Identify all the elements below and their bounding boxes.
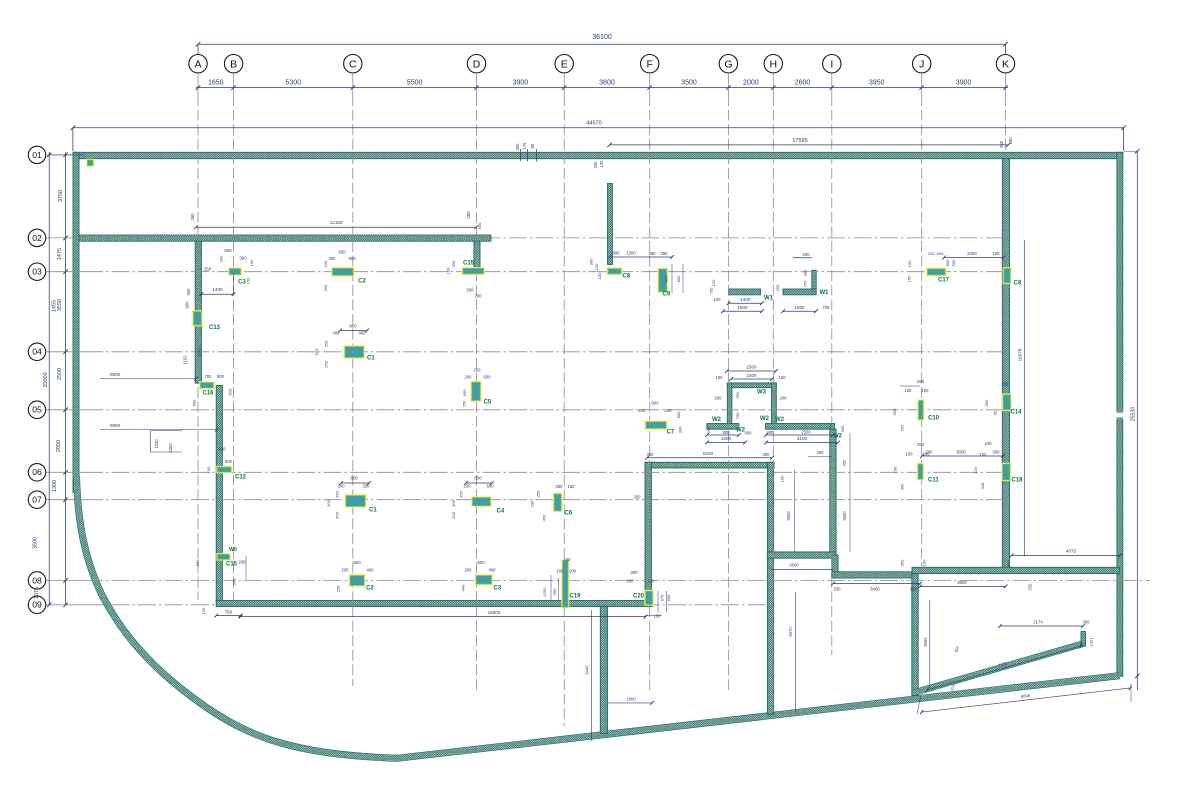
svg-text:2300: 2300 (746, 365, 757, 370)
grid line F (vertical) (649, 95, 651, 690)
svg-text:380: 380 (649, 251, 657, 256)
svg-text:250: 250 (593, 161, 598, 169)
svg-text:250: 250 (462, 400, 467, 407)
dims chain at C8 F (610, 256, 672, 258)
grid bubble 09 (28, 596, 45, 613)
svg-text:750: 750 (803, 280, 808, 287)
svg-text:E: E (561, 59, 568, 71)
column C19 (561, 559, 569, 608)
svg-text:400: 400 (359, 331, 367, 336)
grid bubble 08 (28, 572, 45, 589)
svg-text:1021: 1021 (1089, 637, 1094, 647)
svg-text:130: 130 (648, 579, 656, 584)
svg-text:250: 250 (1002, 382, 1010, 387)
svg-text:240: 240 (564, 557, 572, 562)
svg-text:250: 250 (323, 284, 328, 291)
grid line 06 (horizontal) (85, 471, 1012, 473)
svg-text:A: A (194, 59, 201, 71)
svg-text:44570: 44570 (586, 121, 601, 127)
svg-text:1650: 1650 (208, 79, 224, 86)
svg-text:W2: W2 (760, 416, 770, 422)
svg-text:575: 575 (660, 594, 665, 601)
svg-text:400: 400 (745, 431, 753, 436)
svg-text:1300: 1300 (52, 480, 58, 492)
dims at W1 right (783, 310, 816, 312)
svg-text:200: 200 (239, 560, 247, 565)
wall: W1 right vertical leg (812, 270, 816, 289)
svg-text:500: 500 (224, 248, 232, 253)
svg-text:800: 800 (676, 275, 681, 282)
svg-text:350: 350 (910, 587, 918, 592)
svg-text:350: 350 (900, 483, 905, 490)
grid line K (vertical) (1005, 95, 1007, 568)
svg-text:08: 08 (32, 575, 42, 585)
grid bubble G (719, 55, 737, 73)
svg-text:250: 250 (661, 251, 669, 256)
svg-text:W2: W2 (775, 417, 785, 423)
expansion joint marks on top wall x520 (520, 149, 522, 161)
svg-text:03: 03 (32, 267, 42, 277)
svg-text:300: 300 (1083, 619, 1091, 624)
svg-text:150: 150 (905, 388, 913, 393)
svg-text:600: 600 (937, 251, 944, 256)
svg-text:3550: 3550 (57, 299, 63, 311)
grid line 09 (horizontal) (85, 604, 772, 606)
svg-text:W1: W1 (764, 296, 774, 302)
svg-text:120: 120 (599, 160, 604, 168)
column C5 (471, 381, 482, 402)
column C2 (349, 574, 365, 586)
grid bubble H (764, 55, 782, 73)
wall: curved + slanted bottom exterior wall (77, 476, 1120, 758)
svg-text:250: 250 (917, 379, 925, 384)
svg-text:200: 200 (464, 484, 472, 489)
svg-text:600: 600 (477, 560, 485, 565)
svg-text:25530: 25530 (1131, 407, 1137, 422)
dimension 750 row09 left (216, 615, 240, 617)
svg-text:I: I (830, 59, 833, 71)
svg-text:100: 100 (557, 569, 565, 574)
column C17 (926, 268, 946, 277)
svg-text:C3: C3 (494, 586, 502, 592)
column C12 (216, 466, 232, 474)
svg-text:3650: 3650 (842, 511, 847, 521)
svg-text:200: 200 (817, 450, 825, 455)
svg-text:200: 200 (834, 587, 842, 592)
dims at W1 left (729, 302, 763, 304)
svg-text:600: 600 (225, 459, 233, 464)
svg-text:800: 800 (945, 259, 950, 266)
svg-text:02: 02 (32, 233, 42, 243)
grid bubble D (467, 55, 485, 73)
column C20 (644, 590, 653, 606)
svg-text:C15: C15 (226, 562, 238, 568)
wall: jog wall at x835 (832, 555, 838, 577)
svg-text:1250: 1250 (542, 587, 547, 597)
svg-text:16500: 16500 (488, 610, 501, 615)
svg-text:900: 900 (892, 408, 897, 415)
svg-text:3850: 3850 (786, 511, 791, 521)
svg-text:340: 340 (980, 482, 985, 489)
svg-text:300: 300 (239, 256, 247, 261)
wall: right exterior wall (1117, 152, 1123, 676)
svg-text:150: 150 (323, 260, 328, 267)
wall: interior wall on grid A upper segment (195, 241, 201, 383)
svg-text:850: 850 (1006, 560, 1011, 567)
svg-text:150: 150 (654, 614, 662, 619)
svg-text:C11: C11 (928, 478, 939, 484)
svg-text:3100: 3100 (797, 436, 808, 441)
svg-text:400: 400 (767, 430, 775, 435)
svg-text:C8: C8 (1014, 281, 1022, 287)
wall: interior wall along row 02 (79, 235, 491, 241)
column C13 (192, 310, 202, 326)
svg-text:800: 800 (474, 476, 482, 481)
svg-text:250: 250 (190, 213, 195, 221)
wall: vertical wall below shaft (x833) (830, 429, 836, 555)
svg-text:6670: 6670 (788, 627, 793, 637)
svg-text:200: 200 (530, 500, 535, 507)
svg-text:175: 175 (522, 142, 527, 150)
dimension 36100 overall top (198, 43, 1006, 45)
svg-text:500: 500 (477, 222, 482, 229)
column small wall column (86, 159, 94, 167)
svg-text:700: 700 (893, 466, 898, 473)
svg-text:100: 100 (780, 475, 785, 482)
dimension 17595 (610, 144, 1009, 146)
svg-text:250: 250 (459, 490, 464, 497)
dims around room: 5200 etc (647, 457, 772, 459)
wall: interior wall on grid K (1002, 159, 1009, 570)
wall: W1 wall bar right (row 03) (783, 289, 816, 295)
dimension 44570 (73, 127, 1124, 129)
svg-text:250: 250 (917, 442, 925, 447)
grid bubble 07 (28, 491, 45, 508)
svg-text:200: 200 (627, 579, 635, 584)
svg-text:120: 120 (973, 466, 978, 473)
column C15 (462, 267, 485, 275)
svg-text:220: 220 (928, 251, 935, 256)
svg-text:D: D (473, 59, 481, 71)
svg-text:3500: 3500 (33, 537, 39, 549)
wall: top exterior wall along row 01 (73, 152, 1123, 158)
svg-text:600: 600 (192, 399, 197, 406)
svg-text:400: 400 (489, 568, 497, 573)
svg-text:900: 900 (349, 256, 357, 261)
svg-text:900: 900 (651, 401, 659, 406)
opening in right exterior wall at row 05 (1116, 412, 1124, 419)
right overall dimension 25530 (1136, 151, 1138, 690)
grid bubble 05 (28, 401, 45, 418)
svg-text:B: B (230, 59, 237, 71)
grid line G (vertical) (727, 95, 729, 690)
svg-text:1600: 1600 (794, 305, 805, 310)
grid line 08 (horizontal) (85, 579, 1150, 581)
column C15 (216, 553, 230, 561)
svg-text:2600: 2600 (789, 563, 799, 568)
dimension 16500 row09 (241, 616, 646, 618)
svg-text:05: 05 (32, 405, 42, 415)
svg-text:750: 750 (709, 287, 714, 294)
svg-text:200: 200 (219, 255, 224, 262)
column C18 (1001, 463, 1011, 481)
svg-text:3500: 3500 (681, 79, 697, 86)
dimension 1400 (A wall to B) (201, 293, 233, 295)
svg-text:9850: 9850 (110, 423, 121, 428)
svg-text:300: 300 (763, 452, 771, 457)
svg-text:850: 850 (664, 275, 669, 282)
column C6 (553, 493, 563, 512)
svg-text:04: 04 (32, 347, 42, 357)
svg-text:250: 250 (1028, 583, 1033, 591)
svg-text:300: 300 (840, 425, 845, 432)
svg-text:200: 200 (638, 408, 646, 413)
column C14 (1002, 394, 1012, 411)
grid bubble 04 (28, 343, 45, 360)
svg-text:1475: 1475 (57, 248, 63, 260)
svg-text:1500: 1500 (737, 305, 748, 310)
grid bubble J (913, 55, 931, 73)
svg-text:150: 150 (922, 559, 927, 566)
svg-text:5200: 5200 (703, 451, 714, 456)
svg-text:250: 250 (335, 511, 340, 518)
svg-text:250: 250 (803, 252, 811, 257)
column C11 (917, 463, 924, 481)
dims bottom right: 5065/5445/6670/1800 (929, 600, 931, 688)
svg-text:600: 600 (484, 375, 492, 380)
svg-text:550: 550 (900, 424, 905, 431)
dims at C11 + 3050 (922, 455, 1003, 457)
svg-text:C16: C16 (203, 391, 215, 397)
grid line 05 (horizontal) (85, 409, 1012, 411)
svg-text:C18: C18 (1012, 478, 1024, 484)
svg-text:300: 300 (338, 484, 346, 489)
wall: room top wall (row 06 area) (645, 462, 774, 468)
svg-text:1300: 1300 (168, 443, 173, 453)
wall: shaft left foot W2 (707, 424, 739, 430)
svg-text:C15: C15 (463, 261, 475, 267)
svg-text:W1: W1 (820, 290, 830, 296)
svg-text:450: 450 (542, 514, 547, 521)
svg-text:2500: 2500 (57, 368, 63, 380)
svg-text:36100: 36100 (592, 34, 612, 41)
svg-text:5500: 5500 (407, 79, 423, 86)
grid line H (vertical) (772, 95, 774, 712)
svg-text:1200: 1200 (154, 439, 159, 449)
wall: upper slanted wall bottom right (915, 644, 1084, 693)
column C16 (199, 381, 214, 389)
wall: interior wall lower segment (A jog) (216, 386, 222, 603)
svg-text:100: 100 (906, 452, 914, 457)
svg-text:2500: 2500 (801, 430, 811, 435)
grid line C (vertical) (352, 95, 354, 686)
wall: vertical wall x915 down to slanted wall (912, 574, 918, 696)
svg-text:300: 300 (589, 258, 594, 265)
svg-text:100: 100 (569, 569, 577, 574)
svg-text:350: 350 (900, 559, 905, 566)
wall: stub wall at grid D below row 02 (474, 241, 480, 268)
svg-text:100: 100 (594, 263, 599, 270)
svg-text:C12: C12 (235, 475, 247, 481)
svg-text:1800: 1800 (626, 696, 636, 701)
svg-text:200: 200 (465, 375, 473, 380)
svg-text:150: 150 (335, 490, 340, 497)
svg-text:W3: W3 (757, 390, 767, 396)
svg-text:800: 800 (217, 374, 225, 379)
dimension 18578 vertical near K (1024, 240, 1026, 556)
wall: shaft right wall (772, 383, 777, 429)
svg-text:150: 150 (711, 279, 716, 286)
svg-text:400: 400 (451, 499, 456, 506)
svg-text:400: 400 (333, 331, 341, 336)
grid bubble E (555, 55, 573, 73)
svg-text:100: 100 (714, 297, 722, 302)
svg-text:W2: W2 (712, 417, 722, 423)
svg-text:9600: 9600 (110, 372, 121, 377)
svg-text:100: 100 (446, 267, 451, 274)
svg-text:C19: C19 (570, 594, 582, 600)
svg-text:200: 200 (923, 452, 931, 457)
svg-text:3400: 3400 (870, 586, 880, 591)
svg-text:950: 950 (232, 578, 237, 585)
svg-text:C20: C20 (633, 594, 645, 600)
svg-text:550: 550 (314, 348, 319, 355)
svg-text:400: 400 (367, 568, 375, 573)
svg-text:300: 300 (678, 426, 683, 433)
grid line I (vertical) (831, 95, 833, 655)
svg-text:600: 600 (951, 259, 956, 266)
svg-text:250: 250 (466, 211, 471, 219)
svg-text:C7: C7 (667, 430, 675, 436)
svg-text:300: 300 (329, 256, 337, 261)
column C10 (917, 399, 924, 420)
column C9 (658, 268, 668, 293)
column C3 (475, 574, 493, 585)
svg-text:C: C (349, 59, 357, 71)
svg-text:3900: 3900 (513, 79, 529, 86)
svg-text:2174: 2174 (1033, 619, 1043, 624)
svg-text:600: 600 (487, 484, 495, 489)
svg-text:3750: 3750 (58, 190, 64, 202)
wall: free stub wall near grid F (608, 184, 613, 265)
svg-text:C5: C5 (484, 400, 492, 406)
svg-text:300: 300 (993, 449, 1001, 454)
column C3 (228, 267, 242, 275)
grid bubble A (189, 55, 207, 73)
svg-text:600: 600 (462, 389, 467, 396)
svg-text:06: 06 (32, 467, 42, 477)
grid line D (vertical) (476, 95, 478, 690)
svg-text:1075: 1075 (34, 587, 40, 599)
svg-text:1000: 1000 (197, 347, 202, 357)
svg-text:705: 705 (823, 305, 831, 310)
svg-text:W2: W2 (833, 434, 843, 440)
svg-text:300: 300 (803, 269, 808, 276)
svg-text:250: 250 (451, 260, 456, 267)
wall: room left wall (645, 462, 651, 591)
small bracket dims rows 05-06 left (151, 430, 183, 432)
wall: shaft left wall (727, 383, 732, 429)
svg-text:3900: 3900 (956, 79, 972, 86)
dims at shaft W3 (727, 370, 776, 372)
svg-text:2000: 2000 (743, 79, 759, 86)
svg-text:260: 260 (775, 284, 780, 291)
leader 9600 (100, 378, 196, 380)
svg-text:150: 150 (993, 251, 1001, 256)
svg-text:100: 100 (907, 260, 912, 267)
svg-text:1300: 1300 (626, 251, 636, 256)
svg-text:C1: C1 (367, 356, 375, 362)
grid bubble B (224, 55, 242, 73)
svg-text:800: 800 (350, 476, 358, 481)
svg-text:500: 500 (467, 288, 475, 293)
svg-text:200: 200 (465, 568, 473, 573)
svg-text:4875: 4875 (1066, 549, 1077, 554)
svg-text:H: H (770, 59, 778, 71)
svg-text:85: 85 (530, 143, 535, 148)
svg-text:200: 200 (706, 426, 711, 433)
svg-text:100: 100 (451, 511, 456, 518)
grid bubble C (344, 55, 362, 73)
wall: W1 wall bar left (row 03) (729, 289, 761, 295)
grid bubble F (641, 55, 659, 73)
svg-text:100: 100 (597, 272, 602, 279)
svg-text:150: 150 (779, 375, 787, 380)
svg-text:240: 240 (985, 441, 993, 446)
svg-text:5445: 5445 (585, 665, 590, 675)
leader 9850 (100, 429, 217, 431)
svg-text:950: 950 (735, 391, 740, 398)
svg-text:C2: C2 (358, 279, 366, 285)
svg-text:C17: C17 (938, 278, 950, 284)
svg-text:250: 250 (556, 484, 564, 489)
wall: horizontal wall y555 H-to-x833 (767, 552, 836, 558)
svg-text:2850: 2850 (56, 440, 62, 452)
svg-text:300: 300 (515, 143, 520, 151)
svg-text:250: 250 (999, 140, 1004, 148)
svg-text:1455: 1455 (52, 300, 58, 312)
column C4 (471, 496, 491, 507)
column C7 (645, 421, 668, 430)
svg-text:150: 150 (201, 607, 206, 614)
svg-text:900: 900 (552, 588, 557, 595)
svg-text:1400: 1400 (212, 287, 223, 292)
svg-text:800: 800 (613, 251, 621, 256)
svg-text:250: 250 (474, 368, 482, 373)
svg-text:950: 950 (228, 388, 233, 395)
svg-text:2600: 2600 (795, 79, 811, 86)
svg-text:100: 100 (249, 259, 254, 266)
svg-text:350: 350 (634, 495, 642, 500)
svg-text:C13: C13 (209, 325, 221, 331)
svg-text:150: 150 (980, 452, 988, 457)
svg-text:C2: C2 (366, 586, 374, 592)
svg-text:2400: 2400 (967, 251, 977, 256)
svg-text:900: 900 (185, 301, 190, 309)
svg-text:3800: 3800 (957, 580, 967, 585)
svg-text:1400: 1400 (740, 297, 751, 302)
svg-text:600: 600 (195, 559, 200, 566)
svg-text:350: 350 (219, 447, 227, 452)
svg-text:3950: 3950 (869, 79, 885, 86)
svg-text:150: 150 (1008, 137, 1013, 145)
svg-text:150: 150 (206, 466, 211, 473)
svg-text:5300: 5300 (285, 79, 301, 86)
svg-text:5065: 5065 (923, 637, 928, 647)
svg-text:600: 600 (984, 399, 989, 406)
svg-text:300: 300 (631, 570, 639, 575)
svg-text:650: 650 (338, 250, 346, 255)
